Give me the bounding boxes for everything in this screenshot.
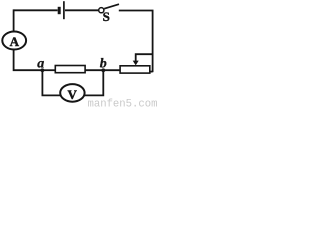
resistor R1 (between a and b) [55, 66, 85, 73]
ammeter A [2, 32, 26, 50]
svg-text:a: a [37, 57, 44, 72]
wire left vertical (corner down to ammeter) [13, 9, 15, 31]
svg-text:A: A [10, 34, 20, 49]
battery cell E [59, 1, 64, 19]
svg-text:V: V [68, 87, 78, 102]
wire battery to switch [65, 9, 99, 11]
rheostat slider arrowhead [133, 61, 139, 66]
wire bottom-left (ammeter leg to node a) [14, 50, 43, 71]
wire right vertical [152, 11, 154, 73]
wire voltmeter branch left (node a down) [42, 70, 60, 95]
background [0, 0, 158, 107]
wire voltmeter branch right (up to node b) [84, 70, 103, 95]
switch S [99, 4, 119, 13]
wire top-left horizontal (corner to battery) [14, 9, 58, 11]
wire node b to rheostat [103, 69, 120, 71]
svg-text:manfen5.com: manfen5.com [88, 99, 158, 107]
svg-text:S: S [103, 9, 110, 24]
wire elbow to rheostat right end [150, 71, 153, 73]
node b junction dot [101, 68, 105, 72]
node a junction dot [41, 68, 45, 72]
wire switch to top-right corner [119, 10, 154, 12]
svg-text:b: b [100, 57, 107, 72]
wire resistor to node b [85, 69, 103, 71]
voltmeter V [60, 84, 84, 102]
wire slider branch [136, 54, 154, 61]
wire node a to resistor [42, 69, 55, 71]
rheostat R2 [120, 66, 150, 73]
